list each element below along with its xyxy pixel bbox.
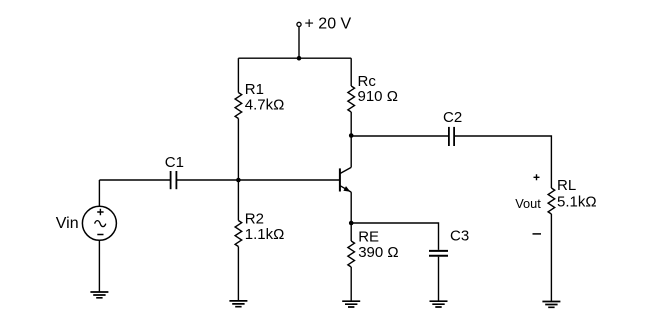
svg-text:C1: C1 xyxy=(165,154,184,171)
svg-text:910 Ω: 910 Ω xyxy=(358,88,398,105)
svg-text:RL: RL xyxy=(557,177,576,194)
svg-text:C2: C2 xyxy=(443,109,462,126)
svg-text:+ 20 V: + 20 V xyxy=(305,16,352,33)
svg-text:5.1kΩ: 5.1kΩ xyxy=(557,194,597,211)
svg-text:R2: R2 xyxy=(245,211,264,228)
svg-text:4.7kΩ: 4.7kΩ xyxy=(245,97,285,114)
svg-text:R1: R1 xyxy=(245,81,264,98)
svg-text:RE: RE xyxy=(358,229,379,246)
svg-text:C3: C3 xyxy=(450,228,469,245)
svg-text:Vout: Vout xyxy=(515,196,541,211)
svg-text:390 Ω: 390 Ω xyxy=(358,244,398,261)
svg-text:1.1kΩ: 1.1kΩ xyxy=(245,226,285,243)
svg-text:Vin: Vin xyxy=(56,215,79,232)
